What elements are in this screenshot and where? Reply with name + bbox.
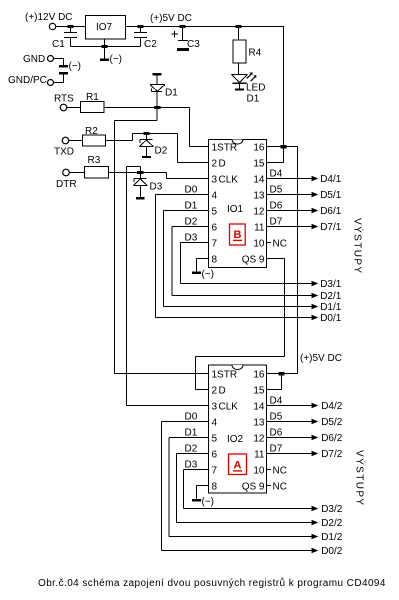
regulator IO7 [86,16,126,40]
pin 10 NC stub IO2 [267,469,272,471]
wire IO2 pin7 D3 out [184,470,312,509]
op IC IO2 CD4094 [209,365,267,493]
notch IO2 [232,365,243,370]
svg-text:D2/2: D2/2 [321,518,343,529]
svg-text:D0: D0 [185,412,198,423]
wire IO1 pin14 D4 out [267,178,312,180]
wire IO1 pin8 to ground [197,259,209,272]
svg-text:D3/1: D3/1 [320,279,342,290]
svg-text:D0/1: D0/1 [320,313,342,324]
LED emission arrows [247,73,252,78]
svg-text:D2/1: D2/1 [320,291,342,302]
svg-text:DTR: DTR [56,179,77,190]
wire RTS branch to IO2 pin1 STR [115,109,209,374]
wire R3 to IO1 pin3 CLK [109,173,209,179]
svg-text:LED: LED [246,82,265,93]
resistor R1 [81,102,105,113]
svg-text:(−): (−) [202,269,215,280]
svg-text:C3: C3 [187,39,200,50]
svg-text:GND/PC: GND/PC [8,75,47,86]
svg-text:R3: R3 [88,155,101,166]
wire DTR to R3 [69,172,84,174]
svg-text:D7: D7 [270,444,283,455]
svg-text:2: 2 [212,159,218,170]
svg-text:(+)5V DC: (+)5V DC [300,353,342,364]
wire IO1 pin12 D6 out [267,210,312,212]
junction C2 [138,25,144,28]
wire IO2 pin13 D5 out [267,421,312,423]
svg-text:7: 7 [212,466,218,477]
capacitor C3 electrolytic [178,27,188,41]
svg-text:D3: D3 [185,233,198,244]
wire DTR branch to IO2 pin3 CLK [127,167,209,406]
svg-text:D3: D3 [150,182,163,193]
diode D2 zener [139,135,153,156]
svg-text:5: 5 [212,434,218,445]
resistor R3 [85,167,109,179]
svg-text:D6: D6 [270,428,283,439]
svg-text:D4: D4 [270,169,283,180]
svg-text:15: 15 [253,386,265,397]
svg-text:C2: C2 [144,39,157,50]
svg-text:11: 11 [254,450,265,461]
svg-text:8: 8 [212,255,218,266]
pin 10 NC stub [267,242,272,244]
wire IO1 pin4 D0 out [156,195,312,318]
wire R1 to IO1 pin1 STR [104,108,209,147]
svg-text:CLK: CLK [219,175,239,186]
junction RTS/D1 [154,106,160,109]
junction DTR/D3 [137,171,143,174]
terminal GND/PC [48,80,54,86]
wire IO1 pin13 D5 out [267,194,312,196]
svg-text:A: A [234,460,242,472]
diode D1 zener [150,75,165,106]
svg-text:7: 7 [212,239,218,250]
diode D3 zener [133,174,147,197]
svg-text:R4: R4 [249,48,262,59]
svg-text:QS 9: QS 9 [242,255,265,266]
wire IO7 output rail to corner [126,26,284,28]
resistor R2 [83,135,106,146]
wire 12V terminal to IO7 [56,26,86,28]
svg-text:D4/2: D4/2 [321,401,343,412]
junction IO2 pin16 [279,372,285,375]
pin 9 NC stub IO2 [267,485,272,487]
svg-text:6: 6 [212,223,218,234]
svg-text:D: D [219,386,226,397]
wire IO2 pin16 to +5V rail [267,373,298,375]
svg-text:NC: NC [273,239,287,250]
svg-text:4: 4 [212,191,218,202]
svg-text:16: 16 [253,370,265,381]
svg-text:D1: D1 [185,201,198,212]
wire IO2 pin5 D1 out [169,438,312,537]
red marker A [229,454,247,475]
wire IO1 pin5 D1 out [164,211,312,307]
svg-text:D5/1: D5/1 [320,190,342,201]
svg-text:RTS: RTS [54,94,74,105]
wire IO2 pin4 D0 out [162,422,312,551]
svg-text:QS 9: QS 9 [242,482,265,493]
svg-text:D6/2: D6/2 [321,433,343,444]
svg-text:R2: R2 [85,126,98,137]
svg-text:NC: NC [273,482,287,493]
wire IO2 pin15 [267,374,282,390]
svg-text:D1/1: D1/1 [320,302,342,313]
junction IO1 pin16 [281,145,287,148]
svg-text:(+)12V DC: (+)12V DC [25,12,73,23]
svg-text:D0/2: D0/2 [321,546,343,557]
svg-text:D1: D1 [247,94,260,105]
wire IO1 pin6 D2 out [172,227,312,296]
svg-text:8: 8 [212,482,218,493]
svg-text:R1: R1 [86,92,99,103]
svg-text:D1: D1 [165,88,178,99]
wire IO2 pin14 D4 out [267,405,312,407]
plus sign C3 [172,31,179,38]
svg-text:IO1: IO1 [227,204,244,215]
svg-text:IO2: IO2 [227,434,244,445]
svg-text:12: 12 [253,207,265,218]
op IC IO1 CD4094 [209,140,267,268]
terminal +12V [49,23,55,29]
svg-text:NC: NC [273,466,287,477]
wire RTS to R1 [67,107,81,109]
capacitor C1 [64,27,77,47]
svg-text:2: 2 [212,386,218,397]
svg-text:16: 16 [253,143,265,154]
svg-text:TXD: TXD [54,147,74,158]
junction C1/top rail [68,25,74,28]
wire IO1 pin9 QS to IO2 pin2 D cascade [196,259,285,390]
svg-text:(−): (−) [110,54,123,65]
wire IO1 pin11 D7 out [267,226,312,228]
svg-text:D3: D3 [185,460,198,471]
svg-text:D2: D2 [185,217,198,228]
svg-text:D7/2: D7/2 [321,449,343,460]
svg-text:3: 3 [212,175,218,186]
svg-text:D4: D4 [270,396,283,407]
svg-text:D3/2: D3/2 [321,504,343,515]
terminal DTR [63,169,70,176]
svg-text:13: 13 [253,418,265,429]
LED D1 [232,75,248,83]
svg-text:11: 11 [254,223,265,234]
svg-text:IO7: IO7 [96,22,113,33]
svg-text:D2: D2 [185,444,198,455]
svg-text:1STR: 1STR [212,143,238,154]
svg-text:D4/1: D4/1 [320,174,342,185]
svg-text:5: 5 [212,207,218,218]
svg-text:D1: D1 [185,428,198,439]
wire IO7 ground pin [104,39,106,47]
svg-text:D6/1: D6/1 [320,206,342,217]
wire GND/PC to stub [54,75,64,83]
wire IO2 pin12 D6 out [267,437,312,439]
junction IO7 ground [102,45,108,48]
svg-text:CLK: CLK [219,402,239,413]
wire ground rail under IO7 [71,46,141,48]
svg-text:D5: D5 [270,412,283,423]
svg-text:(−): (−) [202,497,215,508]
ground stub IO7 [104,48,106,59]
svg-text:C1: C1 [52,39,65,50]
junction TXD/D2 [143,132,149,135]
notch IO1 [232,140,243,145]
svg-text:15: 15 [253,159,265,170]
svg-text:GND: GND [23,54,45,65]
resistor R4 [238,27,240,41]
svg-text:14: 14 [253,175,265,186]
svg-text:12: 12 [253,434,265,445]
svg-text:D6: D6 [270,201,283,212]
wire IO1 pin16 to +5V rail [267,147,298,374]
svg-text:14: 14 [253,402,265,413]
svg-text:4: 4 [212,418,218,429]
svg-text:D7: D7 [270,217,283,228]
svg-text:D1/2: D1/2 [321,532,343,543]
wire top rail corner down to IO1 pin15/16 [283,27,285,163]
wire IO2 pin8 to ground [197,486,209,500]
wire IO1 pin15 [267,162,284,164]
red marker B [230,224,246,245]
wire IO1 pin7 D3 out [181,243,312,284]
svg-text:3: 3 [212,402,218,413]
junction C3 [180,25,186,28]
svg-text:D0: D0 [185,185,198,196]
wire IO2 pin6 D2 out [177,454,312,523]
svg-text:D5/2: D5/2 [321,417,343,428]
svg-text:D5: D5 [270,185,283,196]
terminal RTS [60,104,67,111]
wire IO2 pin11 D7 out [267,453,312,455]
svg-text:D: D [219,159,226,170]
svg-text:(−): (−) [69,61,82,72]
svg-text:10: 10 [253,466,265,477]
svg-text:Obr.č.04 schéma zapojení dvou: Obr.č.04 schéma zapojení dvou posuvných … [38,577,386,589]
junction R4 [236,25,242,28]
wire TXD to R2 [69,140,83,142]
svg-text:13: 13 [253,191,265,202]
svg-text:B: B [234,229,242,241]
wire R2 to IO1 pin2 D [106,134,209,163]
wire GND to stub [54,59,64,66]
svg-text:D7/1: D7/1 [320,222,342,233]
terminal TXD [62,137,69,144]
svg-text:10: 10 [253,239,265,250]
svg-text:D2: D2 [155,146,168,157]
svg-text:(+)5V DC: (+)5V DC [150,13,192,24]
svg-text:6: 6 [212,450,218,461]
terminal GND [48,56,54,62]
svg-text:1STR: 1STR [212,370,238,381]
capacitor C2 [134,27,147,47]
